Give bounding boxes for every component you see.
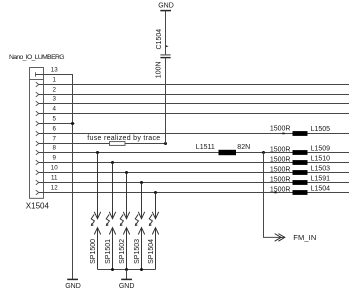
wire gnd to C1504 (165, 11, 167, 55)
wire pin12 right (308, 192, 349, 194)
pin 12 chevron (36, 190, 39, 195)
ferrite bead L1503 body (293, 170, 308, 175)
pin 7 chevron (36, 141, 39, 146)
node rail SP1502 (125, 268, 128, 271)
node pin5 gnd junction (71, 122, 74, 125)
node rail SP1503 (140, 268, 143, 271)
node tick on pin6 wire (282, 133, 285, 135)
inductor L1511 body (219, 150, 237, 155)
svg-text:6: 6 (52, 126, 56, 133)
spark gap SP1500 (91, 153, 101, 270)
node pin12 junction (154, 191, 157, 194)
node tick on pin12 wire (274, 192, 277, 194)
svg-text:4: 4 (52, 106, 56, 113)
svg-text:GND: GND (119, 283, 135, 290)
ferrite bead L1505 body (293, 131, 308, 136)
node rail SP1501 (111, 268, 114, 271)
svg-text:SP1500: SP1500 (90, 239, 97, 264)
wire pin13 to left ground (36, 75, 73, 280)
pin 2 chevron (36, 92, 39, 97)
wire pin8 left (39, 152, 219, 154)
svg-text:2: 2 (52, 87, 56, 94)
pin 5 chevron (36, 121, 39, 126)
svg-text:1500R: 1500R (270, 177, 291, 184)
svg-text:SP1502: SP1502 (119, 239, 126, 264)
svg-text:8: 8 (52, 145, 56, 152)
FM_IN arrow (275, 234, 285, 242)
wire pin4 (39, 113, 349, 115)
spark gap SP1501 (106, 163, 116, 270)
node pin8 SP1500 junction (96, 151, 99, 154)
svg-text:82N: 82N (237, 144, 250, 151)
capacitor C1504 plates (160, 55, 170, 58)
wire pin3 (39, 103, 349, 105)
pin 1 chevron (36, 82, 39, 87)
pin 6 chevron (36, 131, 39, 136)
wire pin1 (39, 84, 349, 86)
wire pin2 (39, 94, 349, 96)
pin 4 chevron (36, 111, 39, 116)
svg-text:1500R: 1500R (270, 187, 291, 194)
wire ground rail (98, 269, 156, 271)
svg-text:10: 10 (51, 165, 58, 172)
svg-text:L1504: L1504 (311, 186, 331, 193)
tick mark on C1504 wire (166, 45, 169, 47)
ferrite bead L1504 body (293, 190, 308, 195)
wire pin8 right (308, 152, 349, 154)
svg-text:L1510: L1510 (311, 156, 331, 163)
svg-text:3: 3 (52, 96, 56, 103)
wire pin5 (39, 123, 75, 125)
ferrite bead L1509 body (293, 150, 308, 155)
svg-text:SP1504: SP1504 (148, 239, 155, 264)
wire pin11 right (308, 182, 349, 184)
wire pin12 left (39, 192, 293, 194)
svg-text:12: 12 (51, 185, 58, 192)
pin 10 chevron (36, 170, 39, 175)
svg-text:FM_IN: FM_IN (293, 233, 316, 242)
wire pin9 left (39, 162, 293, 164)
svg-text:1500R: 1500R (270, 167, 291, 174)
spark gap SP1502 (120, 173, 130, 270)
wire pin8 mid (236, 152, 293, 154)
wire pin10 right (308, 172, 349, 174)
svg-text:13: 13 (51, 67, 58, 74)
wire pin10 left (39, 172, 293, 174)
fuse realized by trace (pin7) (110, 142, 126, 146)
ferrite bead L1510 body (293, 160, 308, 165)
pin 11 chevron (36, 180, 39, 185)
svg-text:SP1503: SP1503 (134, 239, 141, 264)
wire pin9 right (308, 162, 349, 164)
svg-text:L1505: L1505 (311, 126, 331, 133)
wire FM_IN branch (264, 153, 286, 238)
svg-text:fuse realized by trace: fuse realized by trace (87, 135, 160, 142)
svg-text:X1504: X1504 (26, 201, 50, 210)
wire rail to ground (126, 270, 128, 280)
svg-text:1500R: 1500R (270, 125, 291, 132)
svg-text:L1511: L1511 (196, 144, 215, 151)
connector X1504 body (30, 68, 44, 199)
svg-text:L1591: L1591 (311, 176, 331, 183)
svg-text:Nano_IO_LUMBERG: Nano_IO_LUMBERG (9, 54, 64, 61)
svg-text:1500R: 1500R (270, 147, 291, 154)
wire pin11 left (39, 182, 293, 184)
node pin8 FM junction (262, 151, 265, 154)
svg-text:L1503: L1503 (311, 166, 331, 173)
svg-text:1: 1 (52, 77, 56, 84)
wire pin6 right (308, 133, 349, 135)
node pin11 junction (140, 181, 143, 184)
ground symbol left (67, 278, 78, 280)
ferrite bead L1591 body (293, 180, 308, 185)
svg-text:1500R: 1500R (270, 157, 291, 164)
wire pin6 left (39, 133, 293, 135)
pin 9 chevron (36, 160, 39, 165)
svg-text:5: 5 (52, 116, 56, 123)
svg-text:9: 9 (52, 155, 56, 162)
svg-text:GND: GND (158, 2, 174, 9)
pin 3 chevron (36, 101, 39, 106)
svg-text:GND: GND (65, 283, 81, 290)
svg-text:L1509: L1509 (311, 146, 331, 153)
svg-text:C1504: C1504 (156, 29, 163, 50)
node pin9 junction (111, 161, 114, 164)
node pin7 C1504 junction (164, 142, 167, 145)
svg-text:11: 11 (51, 175, 58, 182)
wire pin7 (39, 143, 166, 145)
pin 8 chevron (36, 150, 39, 155)
node pin10 junction (125, 171, 128, 174)
ground symbol top (160, 10, 171, 12)
svg-text:7: 7 (52, 136, 56, 143)
svg-text:100N: 100N (155, 61, 162, 78)
wire C1504 to pin7 (165, 58, 167, 144)
svg-text:SP1501: SP1501 (105, 239, 112, 264)
ground symbol bottom right (121, 278, 132, 280)
pin 13 tick (35, 72, 37, 76)
spark gap SP1504 (149, 193, 159, 270)
spark gap SP1503 (135, 183, 145, 270)
